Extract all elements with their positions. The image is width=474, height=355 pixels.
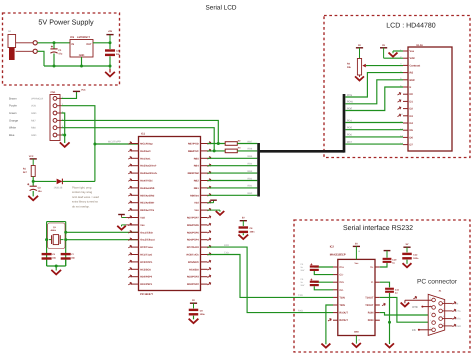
svg-text:Serial interface RS232: Serial interface RS232 (343, 224, 413, 232)
wire RC7 Rx (208, 247, 334, 313)
wire R1 bottom (32, 177, 34, 182)
wire C2 top stem (109, 43, 111, 49)
svg-text:RB6/PGC: RB6/PGC (188, 150, 199, 153)
svg-text:3: 3 (430, 312, 431, 315)
junction C11 net (388, 321, 391, 324)
connector CN1 outline (50, 95, 60, 141)
pins IC1 left stubs (132, 143, 139, 145)
pins MAX232 left (333, 266, 338, 268)
wire pot wiper to lcd vo (366, 65, 403, 67)
svg-text:7: 7 (443, 308, 444, 311)
svg-text:RB2: RB2 (194, 180, 200, 183)
svg-text:RB5: RB5 (194, 157, 200, 160)
svg-text:RB7: RB7 (248, 140, 253, 143)
svg-text:RD4/PSP4: RD4/PSP4 (187, 239, 199, 242)
connector CN1 pins (53, 97, 57, 101)
wire icsp p4 RB7 (62, 120, 219, 143)
svg-text:RB3: RB3 (248, 170, 253, 173)
wire OSC1 to IC1 (66, 231, 139, 233)
ground icsp (61, 143, 69, 147)
wire R3 to bus (237, 150, 257, 152)
svg-text:onto lead wires. I used: onto lead wires. I used (72, 196, 99, 199)
svg-text:8: 8 (443, 315, 444, 318)
svg-text:9: 9 (443, 323, 444, 326)
wire bus to lcd D7 (345, 143, 403, 145)
svg-text:5V Power Supply: 5V Power Supply (38, 18, 94, 27)
svg-text:RI: RI (456, 302, 459, 305)
frame RS232 box (294, 220, 470, 352)
resistor R1 4k7 (31, 166, 35, 177)
battery G1 (8, 35, 16, 48)
svg-text:100n: 100n (413, 257, 419, 260)
svg-text:RB7/PGD: RB7/PGD (188, 143, 199, 146)
wire xtal bottom rail (47, 265, 66, 267)
svg-text:D1: D1 (410, 100, 414, 103)
svg-text:VPP/MCLR: VPP/MCLR (31, 97, 43, 100)
wire bottom rail (44, 65, 110, 67)
svg-text:RTS: RTS (456, 318, 461, 321)
junction MCLR node (93, 143, 96, 146)
db9 stub pin5 CD (418, 329, 420, 331)
ground C11 (386, 344, 394, 347)
bus vertical MCU side (257, 143, 260, 197)
svg-text:RD3/PSP3: RD3/PSP3 (187, 276, 199, 279)
wire C8 gnd stem (242, 233, 244, 235)
svg-text:T1IN: T1IN (339, 296, 345, 299)
capacitor C10 1u (383, 258, 392, 260)
wire C9 gnd stem (193, 316, 195, 320)
svg-text:White: White (9, 127, 16, 130)
svg-text:RC0/T1oso: RC0/T1oso (140, 246, 153, 249)
vcc icsp symbol (73, 90, 80, 92)
crystal Q1 (49, 239, 52, 241)
svg-text:PD4: PD4 (347, 119, 352, 122)
svg-text:IC5: IC5 (70, 36, 75, 39)
svg-text:5V: 5V (358, 44, 361, 47)
wire MCLR vert lower (94, 144, 96, 181)
svg-text:RB1: RB1 (248, 185, 253, 188)
wire icsp p3 gnd (62, 113, 65, 143)
svg-text:RD6/PSP6: RD6/PSP6 (187, 224, 199, 227)
ground pot (356, 77, 364, 80)
wire MAX gnd stem (355, 336, 357, 344)
ground crystal (52, 271, 60, 275)
svg-text:PD7: PD7 (347, 141, 352, 144)
wire RB1 to bus (208, 187, 258, 189)
db9 pin circles (432, 298, 436, 302)
junction RB6 (213, 149, 216, 152)
wire R2 to bus (237, 143, 257, 145)
vcc +5V supply symbol (109, 35, 111, 43)
svg-text:+5V: +5V (108, 30, 113, 33)
svg-text:LM7805CT: LM7805CT (77, 36, 90, 39)
wire lcd vss (393, 50, 403, 52)
svg-text:RS: RS (410, 72, 414, 75)
junction rail C1 (53, 65, 56, 68)
wire lcd vdd (384, 57, 403, 59)
svg-text:RB0: RB0 (248, 192, 253, 195)
svg-text:RC2/CCP1: RC2/CCP1 (140, 261, 153, 264)
capacitor C5 1u (310, 281, 319, 283)
pins MAX232 right (375, 266, 380, 268)
svg-text:CN1: CN1 (51, 91, 56, 94)
frame LCD box (324, 16, 470, 158)
squiggle DTR stub (413, 296, 416, 299)
svg-text:GND: GND (31, 112, 37, 115)
svg-text:R1IN: R1IN (368, 312, 374, 315)
svg-text:Contrast: Contrast (410, 64, 421, 67)
svg-text:GND: GND (354, 331, 359, 334)
svg-text:Blue: Blue (9, 134, 15, 137)
svg-text:V+: V+ (370, 266, 374, 269)
svg-text:T1OUT: T1OUT (365, 296, 374, 299)
capacitor C1 47u (50, 48, 57, 50)
svg-text:R/W: R/W (410, 79, 416, 82)
wire bus to lcd E (345, 87, 403, 111)
svg-text:1N4148: 1N4148 (54, 186, 63, 189)
wire xtal gnd stem (55, 266, 57, 271)
svg-text:RC4/SDI: RC4/SDI (189, 268, 199, 271)
junction xtal left (45, 238, 48, 241)
capacitor C12 100n (402, 253, 412, 255)
db9 X1 outline (428, 294, 445, 335)
wire C1 bottom (53, 54, 55, 67)
lcd connector KL1 body (408, 47, 452, 151)
svg-text:RC7/Rx/Dt: RC7/Rx/Dt (187, 246, 199, 249)
svg-text:Green: Green (9, 112, 17, 115)
svg-text:RA4/T0Cki: RA4/T0Cki (140, 180, 153, 183)
svg-text:RA3/An3/Vref+: RA3/An3/Vref+ (140, 172, 157, 175)
svg-text:D5: D5 (410, 129, 414, 132)
vcc reset symbol (30, 158, 37, 160)
wire icsp p2 MCLR (62, 106, 95, 144)
svg-text:Orange: Orange (9, 119, 18, 122)
svg-text:1: 1 (430, 297, 431, 300)
svg-text:Vdd: Vdd (410, 57, 415, 60)
svg-text:R2OUT: R2OUT (339, 319, 348, 322)
vcc C10 symbol (384, 250, 391, 252)
svg-text:TXD: TXD (224, 251, 229, 254)
svg-text:VCC: VCC (81, 89, 86, 92)
resistor R3 (225, 149, 237, 153)
wire regulator GND stem (81, 57, 83, 66)
wire V- to C11 (380, 282, 390, 287)
svg-text:RE1/An6/Wr: RE1/An6/Wr (140, 202, 154, 205)
potentiometer R4 10k (357, 59, 361, 76)
svg-text:4MHz: 4MHz (51, 229, 56, 232)
ground C12 (403, 264, 411, 267)
junction xtal bottom (55, 265, 58, 268)
svg-text:Vss: Vss (410, 50, 415, 53)
pins lcd connector (403, 50, 408, 52)
svg-text:RB2: RB2 (248, 177, 253, 180)
svg-text:RE0/An5/Rd: RE0/An5/Rd (140, 194, 154, 197)
svg-text:RB7: RB7 (31, 119, 36, 122)
svg-text:C2-: C2- (339, 289, 343, 292)
junction rail C2 (109, 65, 112, 68)
svg-text:PD5: PD5 (347, 127, 352, 130)
ground C8 (239, 235, 247, 239)
svg-text:Vss: Vss (194, 209, 199, 212)
svg-text:RA5/An4/SS: RA5/An4/SS (140, 187, 154, 190)
wire RB2 to bus (208, 180, 258, 182)
svg-text:RB0/Int: RB0/Int (190, 194, 199, 197)
svg-text:RD2/PSP2: RD2/PSP2 (187, 283, 199, 286)
svg-text:RB3/PGM: RB3/PGM (188, 172, 199, 175)
svg-text:PDS: PDS (347, 94, 352, 97)
capacitor C2 10u (105, 49, 115, 51)
wire battery to pads (16, 42, 33, 44)
junction C1 top (53, 41, 56, 44)
db9 stub pin2 DTR (421, 306, 423, 308)
wire V+ to C10 (380, 263, 387, 267)
wire C5 bottom (314, 286, 333, 290)
wire icsp p5 RB6 (62, 128, 215, 151)
svg-text:PDE: PDE (347, 107, 352, 110)
wire C11 down to gnd (389, 293, 391, 344)
wire RB5 to bus (208, 157, 258, 159)
capacitor C4 1u (310, 265, 319, 267)
svg-text:extra library turned so: extra library turned so (72, 201, 98, 204)
capacitor C8 100n (239, 226, 249, 228)
svg-text:VDD: VDD (31, 105, 36, 108)
svg-text:IC2: IC2 (330, 245, 335, 248)
svg-text:KL16: KL16 (417, 44, 424, 47)
wire C4 top (314, 266, 333, 268)
wire icsp p1 to vcc (62, 92, 77, 99)
wire T1OUT to DB9 pin4 (380, 297, 432, 322)
pin direction marks IC1 left (128, 142, 131, 145)
vcc IC1 left pin (126, 217, 139, 219)
svg-text:4: 4 (430, 319, 431, 322)
wire bus to lcd D5 (345, 129, 403, 131)
bus vertical LCD side (343, 94, 346, 153)
svg-text:V-: V- (371, 281, 374, 284)
svg-text:RC6/Tx/Ck: RC6/Tx/Ck (186, 254, 199, 257)
svg-text:do not overlap.: do not overlap. (72, 205, 90, 208)
svg-text:RB4: RB4 (248, 163, 253, 166)
wire OSC2 to IC1 (66, 239, 139, 241)
svg-text:D2: D2 (410, 108, 414, 111)
ground supply (109, 66, 111, 69)
svg-text:RB1: RB1 (194, 187, 200, 190)
svg-text:RD0/PSP0: RD0/PSP0 (140, 276, 152, 279)
wire icsp p6 gnd (62, 134, 65, 136)
svg-text:PIC16F877: PIC16F877 (140, 293, 154, 296)
pins IC1 right stubs (201, 143, 208, 145)
wire pot bottom (359, 75, 361, 77)
svg-text:15: 15 (358, 339, 360, 342)
wire bus to lcd D6 (345, 136, 403, 138)
wire caps to bottom rail (46, 260, 48, 266)
wire xtal top rail (47, 221, 66, 223)
svg-text:R2IN: R2IN (368, 319, 374, 322)
svg-text:Place tight, prog: Place tight, prog (72, 187, 92, 190)
wire pad2 down (37, 51, 44, 66)
vcc IC1 right pin (208, 202, 214, 204)
ground MAX232 (353, 344, 361, 347)
svg-text:CD: CD (412, 329, 416, 332)
ground DB9 pin1 (404, 300, 406, 303)
svg-text:5V: 5V (382, 44, 385, 47)
microcontroller IC1 PIC16F877 body (139, 137, 201, 291)
crystal Q1 frame (48, 223, 65, 249)
svg-text:RB5: RB5 (248, 155, 253, 158)
svg-text:RXD: RXD (298, 309, 303, 312)
svg-text:47u: 47u (58, 52, 63, 55)
wire gnd to DB9 pin1 (405, 299, 432, 301)
svg-text:T2IN: T2IN (339, 304, 345, 307)
svg-text:RE2/An7/Cs: RE2/An7/Cs (140, 209, 154, 212)
svg-text:CTS: CTS (456, 310, 461, 313)
capacitor C6 22p (42, 253, 52, 255)
svg-text:RA1/An1: RA1/An1 (140, 157, 151, 160)
wire RB4 to bus (208, 165, 258, 167)
wire RC6 Tx (208, 255, 334, 298)
wire pad1 to regulator IN (37, 42, 70, 44)
svg-text:TXD: TXD (298, 294, 303, 297)
pin direction marks IC1 right (208, 142, 211, 145)
svg-text:16: 16 (358, 250, 360, 253)
frame 5V power supply box (3, 13, 120, 85)
wire C5 top (314, 281, 333, 283)
svg-text:MAX232ECP: MAX232ECP (330, 253, 346, 256)
no-connect T2OUT (382, 303, 385, 306)
svg-text:6: 6 (443, 300, 444, 303)
svg-text:5V: 5V (406, 243, 409, 246)
wire MCLR to IC1 (95, 143, 139, 145)
svg-text:IC1: IC1 (141, 133, 146, 136)
ground T2IN (322, 344, 330, 347)
svg-text:Purple: Purple (9, 105, 17, 108)
svg-text:RB4: RB4 (194, 165, 200, 168)
svg-text:C1+: C1+ (339, 266, 344, 269)
svg-text:PD6: PD6 (347, 134, 352, 137)
wire C2 bottom (109, 56, 111, 66)
svg-text:Brown: Brown (9, 97, 17, 100)
svg-text:T2OUT: T2OUT (365, 304, 374, 307)
svg-text:16V: 16V (300, 284, 304, 287)
svg-text:MCLR/VPP: MCLR/VPP (108, 141, 121, 144)
junction out node (109, 41, 112, 44)
svg-text:RA0/An0: RA0/An0 (140, 150, 151, 153)
capacitor C3 10u (30, 185, 37, 187)
svg-text:RXD: RXD (224, 244, 229, 247)
svg-text:5V: 5V (192, 299, 195, 302)
wire C3 stem (32, 181, 34, 185)
svg-text:D6: D6 (410, 136, 414, 139)
pad circle 1 (33, 41, 37, 45)
wire xtal left rail (46, 222, 48, 266)
ground IC1 right pin (208, 209, 221, 211)
svg-text:RD5/PSP5: RD5/PSP5 (187, 231, 199, 234)
svg-text:5: 5 (430, 326, 431, 329)
svg-text:D0: D0 (410, 93, 414, 96)
svg-text:PDW: PDW (347, 101, 353, 104)
capacitor C7 22p (61, 253, 71, 255)
ground C9 (189, 319, 197, 323)
ground reset (29, 196, 37, 200)
svg-text:5V: 5V (242, 217, 245, 220)
svg-text:GND: GND (31, 134, 37, 137)
svg-text:DTR: DTR (412, 306, 417, 309)
svg-text:RB6: RB6 (248, 148, 253, 151)
svg-text:D4: D4 (410, 122, 414, 125)
svg-text:10u: 10u (116, 53, 121, 56)
wire RB3 to bus (208, 172, 258, 174)
svg-text:C1-: C1- (339, 274, 343, 277)
capacitor C11 1u (385, 288, 394, 290)
svg-text:5V: 5V (355, 242, 358, 245)
svg-text:OUT: OUT (86, 43, 92, 46)
svg-text:RB6: RB6 (31, 127, 36, 130)
wire bus to lcd RS (345, 73, 403, 97)
svg-text:MCLR/Vpp: MCLR/Vpp (140, 143, 153, 146)
svg-text:D7: D7 (410, 144, 414, 147)
svg-text:R1OUT: R1OUT (339, 312, 348, 315)
svg-text:Osc1/Clkin: Osc1/Clkin (140, 231, 153, 234)
svg-text:RA2/An2/Vref-: RA2/An2/Vref- (140, 165, 156, 168)
ic IC2 MAX232 body (338, 259, 375, 335)
bus horizontal (259, 150, 344, 153)
wire RB7 to resistor (208, 143, 226, 145)
wire RB6 to resistor (208, 150, 226, 152)
no-connect marks lcd D0-D3 (398, 92, 401, 95)
wire C3 bottom (32, 191, 34, 197)
svg-text:Osc2/Clkout: Osc2/Clkout (140, 239, 154, 242)
svg-text:D3: D3 (410, 115, 414, 118)
svg-text:LCD : HD44780: LCD : HD44780 (386, 23, 436, 30)
junction icsp gnd (63, 134, 66, 137)
svg-text:Vdd: Vdd (140, 217, 145, 220)
regulator IC5 7805 (70, 40, 93, 58)
capacitor C9 100n (189, 309, 199, 311)
svg-text:RD7/PSP7: RD7/PSP7 (187, 217, 199, 220)
svg-text:100n: 100n (250, 230, 256, 233)
svg-text:RC1/T1osi: RC1/T1osi (140, 254, 152, 257)
junction rail reg (80, 65, 83, 68)
junction xtal right (64, 238, 67, 241)
svg-text:C2+: C2+ (339, 281, 344, 284)
wire reset to diode (33, 180, 56, 182)
svg-text:RD1/PSP1: RD1/PSP1 (140, 283, 152, 286)
svg-text:DSR: DSR (456, 325, 461, 328)
svg-text:IN: IN (72, 43, 75, 46)
wire bus to lcd D4 (345, 122, 403, 124)
junction osc1 (64, 231, 67, 234)
diode D1 1N4148 (57, 179, 63, 185)
svg-text:Serial LCD: Serial LCD (206, 5, 237, 12)
svg-text:PC connector: PC connector (417, 279, 458, 286)
wire RB0 to bus (208, 194, 258, 196)
wire T2IN gnd (326, 305, 333, 344)
wire C4 bottom (314, 271, 333, 275)
svg-text:RC3/SCK: RC3/SCK (140, 268, 151, 271)
svg-text:Vdd: Vdd (194, 202, 199, 205)
pad circle 2 (33, 49, 37, 53)
resistor R2 (225, 142, 237, 146)
svg-text:RC5/SDO: RC5/SDO (188, 261, 199, 264)
db9 right stubs (442, 302, 452, 304)
junction reset node (32, 180, 35, 183)
wire xtal right rail (65, 222, 67, 266)
ground IC1 left pin (126, 224, 139, 226)
wire diode to MCLR vert (62, 180, 95, 182)
wire C12 gnd stem (406, 260, 408, 264)
svg-text:Vss: Vss (140, 224, 145, 227)
no-connect R2OUT (328, 318, 331, 321)
svg-text:E: E (410, 86, 412, 89)
